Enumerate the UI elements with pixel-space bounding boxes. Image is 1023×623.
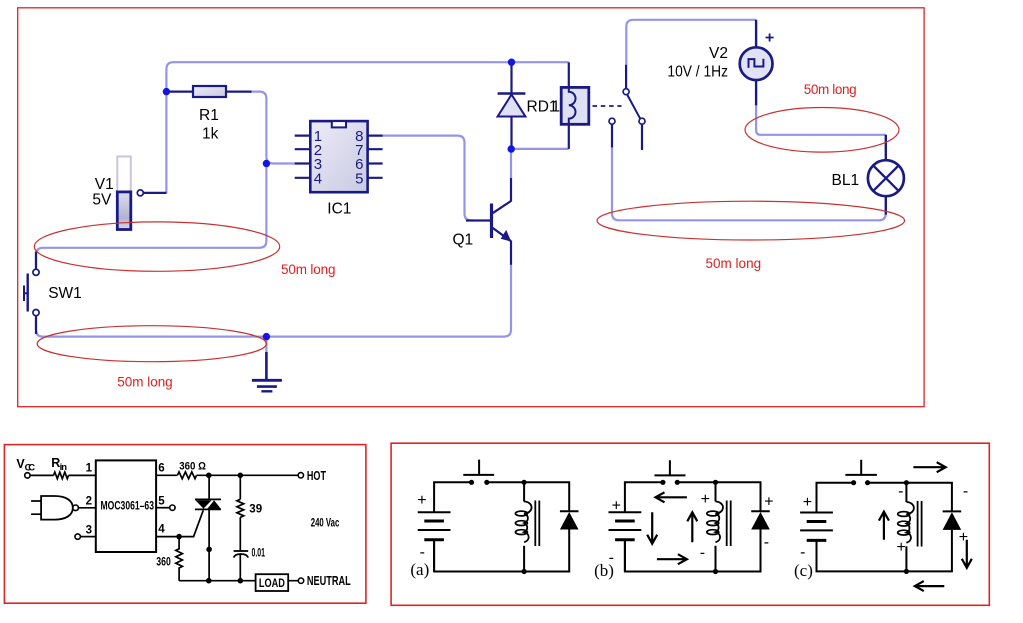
svg-text:+: +	[612, 498, 621, 515]
relay coil RD1	[561, 62, 589, 148]
svg-text:3: 3	[86, 524, 92, 536]
circuit b arrow down	[647, 512, 657, 543]
node NEUTRAL terminal	[298, 578, 303, 583]
svg-text:+: +	[764, 494, 773, 511]
svg-text:-: -	[963, 483, 968, 500]
svg-text:Q1: Q1	[453, 232, 474, 249]
junction dot bottom2	[238, 578, 244, 584]
LOAD box	[256, 574, 289, 591]
resistor 360 ohm	[177, 472, 196, 479]
resistor Rin	[54, 472, 69, 479]
abc panel border	[391, 443, 989, 605]
svg-text:240 Vac: 240 Vac	[311, 518, 340, 530]
circuit c pushbutton	[845, 460, 877, 486]
node pin5 terminal	[170, 505, 175, 510]
wire HOT row to 39 resistor	[239, 475, 241, 499]
node HOT terminal	[298, 473, 303, 478]
svg-text:BL1: BL1	[832, 172, 860, 189]
wire NAND to pin2	[79, 507, 96, 509]
wire 39 to cap	[239, 517, 241, 551]
svg-text:50m long: 50m long	[804, 82, 857, 97]
relay contact switch	[609, 65, 645, 150]
svg-text:+: +	[417, 492, 426, 509]
svg-text:+: +	[701, 491, 710, 508]
junction dot bottom1	[206, 578, 212, 584]
junction node diode / relay	[508, 145, 515, 152]
ground	[252, 337, 282, 392]
lamp BL1	[868, 135, 904, 215]
circuit c arrow top (right)	[913, 462, 945, 472]
svg-text:MOC3061–63: MOC3061–63	[101, 500, 155, 512]
circuit a inductor	[515, 480, 539, 574]
svg-text:10V / 1Hz: 10V / 1Hz	[667, 63, 728, 80]
svg-text:5: 5	[355, 170, 363, 187]
wire SW1 to ground bus to Q1 emitter	[36, 265, 511, 337]
svg-text:360 Ω: 360 Ω	[179, 461, 206, 473]
junction node pin3	[263, 160, 270, 167]
svg-text:-: -	[764, 534, 769, 551]
node pin3 terminal	[75, 534, 80, 539]
wire pin3	[81, 536, 96, 538]
resistor R1	[166, 86, 251, 97]
wire Rin to pin1	[69, 474, 96, 476]
svg-text:1: 1	[552, 98, 561, 115]
svg-text:HOT: HOT	[307, 468, 326, 483]
wire diode node to relay coil bottom	[511, 148, 569, 150]
circuit c diode	[943, 511, 962, 530]
svg-text:+: +	[897, 539, 906, 556]
junction dot hot2	[238, 473, 244, 479]
svg-text:6: 6	[158, 462, 164, 474]
top panel border	[18, 8, 924, 407]
node VCC terminal	[25, 473, 30, 478]
resistor 360 lower	[176, 537, 183, 581]
circuit a battery	[418, 512, 451, 571]
circuit c loop wires	[817, 483, 952, 572]
circuit b arrow bottom (right)	[657, 554, 687, 564]
wire pin4 to gate node	[156, 536, 179, 538]
circuit b arrow top (left)	[656, 492, 687, 502]
source V2	[740, 20, 774, 106]
wire R1 to IC1 pin3 vertical	[250, 92, 295, 164]
wire pin6 to 360ohm	[156, 474, 177, 476]
svg-text:50m long: 50m long	[117, 375, 172, 390]
resistor 39	[237, 499, 244, 517]
IC MOC3061-63	[96, 460, 156, 552]
circuit a pushbutton	[463, 460, 494, 485]
wire V2 bottom jog to BL1	[756, 105, 886, 134]
circuit b pushbutton	[655, 460, 686, 485]
wire pin5	[156, 507, 170, 509]
wire node pin3 down to battery-row	[36, 164, 266, 267]
svg-text:SW1: SW1	[48, 285, 82, 302]
circuit a loop wires	[434, 482, 569, 571]
svg-text:1: 1	[86, 462, 93, 474]
svg-text:R1: R1	[199, 107, 219, 124]
moc panel border	[4, 445, 366, 604]
svg-text:LOAD: LOAD	[259, 578, 285, 590]
svg-text:5: 5	[158, 496, 165, 508]
annotation ellipse 4	[597, 201, 904, 240]
svg-text:IC1: IC1	[327, 201, 351, 218]
junction node ground bus	[263, 333, 270, 340]
triac gate wire	[179, 510, 203, 536]
wire VCC to Rin	[30, 474, 53, 476]
circuit c arrow up	[879, 512, 889, 540]
svg-text:2: 2	[86, 496, 92, 508]
circuit b loop wires	[625, 482, 761, 571]
svg-text:-: -	[898, 483, 903, 500]
svg-text:(a): (a)	[410, 560, 429, 579]
svg-text:+: +	[803, 494, 812, 511]
svg-text:1k: 1k	[202, 126, 219, 143]
svg-text:39: 39	[249, 504, 262, 516]
svg-text:360: 360	[156, 557, 171, 569]
svg-text:(c): (c)	[794, 561, 813, 580]
capacitor 0.01	[234, 551, 249, 581]
svg-text:4: 4	[314, 170, 322, 187]
wire IC1 pin8 to Q1 base	[381, 136, 473, 221]
dashed link relay to contact	[593, 105, 622, 107]
svg-text:50m long: 50m long	[281, 262, 336, 277]
circuit c battery	[800, 513, 833, 572]
junction dot gate	[176, 534, 182, 540]
transistor Q1	[466, 178, 511, 265]
switch SW1	[24, 252, 39, 335]
svg-text:(b): (b)	[594, 561, 614, 580]
diode D1	[498, 64, 526, 149]
circuit b inductor	[707, 480, 731, 574]
wire contact common to top right bus to V2	[626, 20, 756, 65]
svg-text:CC: CC	[25, 462, 36, 473]
svg-text:-: -	[800, 544, 805, 561]
circuit a diode	[560, 511, 579, 529]
wire V1 to top bus	[166, 62, 511, 193]
svg-text:5V: 5V	[92, 192, 112, 209]
junction node R1/V1	[163, 88, 170, 95]
svg-text:50m long: 50m long	[706, 256, 762, 271]
annotation ellipse 3	[745, 108, 899, 153]
svg-text:in: in	[60, 462, 68, 473]
circuit b battery	[609, 512, 642, 571]
wire 360ohm to HOT	[197, 474, 299, 476]
bottom wire to LOAD	[179, 580, 298, 582]
junction dot hot1	[206, 473, 212, 479]
circuit c arrow bottom (left)	[915, 581, 945, 591]
svg-text:4: 4	[158, 523, 165, 535]
circuit c arrow down	[962, 540, 972, 568]
wire diode node to Q1 collector	[510, 149, 512, 178]
junction node top bus / diode	[508, 59, 515, 66]
junction dot triac mid	[206, 547, 212, 553]
IC op-amp IC1	[295, 121, 383, 192]
NAND gate U	[31, 496, 78, 520]
svg-text:0.01: 0.01	[252, 548, 266, 560]
wire top bus to relay coil top	[512, 61, 569, 63]
triac	[195, 475, 221, 580]
svg-text:V2: V2	[709, 45, 728, 62]
circuit b arrow up	[687, 512, 697, 542]
svg-text:+: +	[959, 529, 968, 546]
wire contact NO to bottom-right bus to BL1 bottom	[612, 147, 886, 220]
circuit c inductor	[898, 480, 922, 574]
svg-text:-: -	[420, 544, 425, 561]
battery V1	[117, 157, 166, 230]
annotation ellipse 1	[34, 222, 279, 271]
annotation ellipse 2	[37, 326, 266, 362]
svg-text:-: -	[700, 545, 705, 562]
svg-text:NEUTRAL: NEUTRAL	[307, 573, 351, 588]
circuit b diode	[751, 511, 770, 529]
